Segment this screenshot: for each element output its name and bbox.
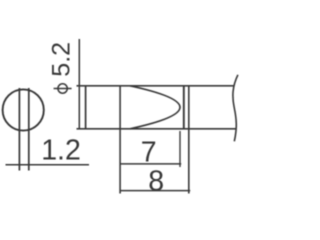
apex extension line	[179, 131, 181, 167]
svg-text:8: 8	[148, 165, 164, 197]
technical drawing: soldering tip, front view + side view	[0, 0, 240, 240]
dimension line 7	[120, 163, 181, 165]
svg-text:1.2: 1.2	[41, 134, 81, 166]
side view left edge	[85, 86, 87, 129]
front view circle	[3, 89, 44, 130]
dimension line 1.2	[6, 164, 90, 166]
chisel edge line left	[18, 88, 20, 171]
side view top edge	[77, 85, 235, 87]
svg-text:7: 7	[141, 137, 157, 169]
chisel edge line right	[28, 88, 30, 171]
tip grind parabola	[130, 86, 180, 129]
dimension line 8	[120, 190, 190, 192]
joint line 2 + extension down	[188, 86, 190, 194]
joint line 1	[183, 86, 185, 129]
label phi symbol (drawn: circle + bar)	[54, 84, 72, 93]
svg-text:5.2: 5.2	[48, 42, 76, 77]
chisel face line + extension down	[119, 86, 121, 194]
break squiggle	[233, 75, 238, 142]
phi 5.2 dimension line	[78, 39, 80, 129]
side view bottom edge	[77, 128, 237, 130]
